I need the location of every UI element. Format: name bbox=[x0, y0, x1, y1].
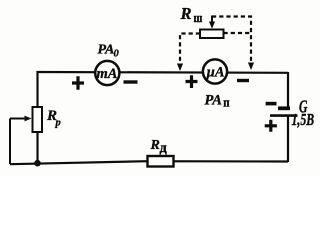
minus sign (uA right) bbox=[237, 79, 249, 82]
svg-text:PA: PA bbox=[205, 92, 223, 108]
wire dashed shunt left bbox=[180, 34, 200, 65]
ammeter PA0 (mA) bbox=[95, 61, 119, 85]
label Rp bbox=[46, 108, 61, 129]
battery G positive plate (long) bbox=[270, 114, 298, 117]
wire right vertical lower bbox=[287, 116, 289, 162]
resistor Rsh (shunt) bbox=[200, 30, 224, 39]
arrow dashed-left tip bbox=[177, 64, 183, 72]
wire dashed shunt tap top bbox=[212, 17, 251, 63]
rheostat wiper arrowhead bbox=[25, 116, 32, 122]
microammeter PAp (uA) bbox=[203, 59, 227, 83]
plus sign (uA left) bbox=[186, 75, 198, 88]
svg-text:1,5В: 1,5В bbox=[292, 111, 315, 130]
label PAp bbox=[205, 92, 230, 110]
svg-text:R: R bbox=[180, 4, 192, 23]
resistor Rd bbox=[148, 156, 174, 167]
svg-text:п: п bbox=[223, 95, 229, 110]
arrow dashed-right tip bbox=[248, 63, 254, 71]
node junction dot bbox=[34, 160, 41, 167]
label Rd bbox=[150, 138, 168, 156]
svg-text:0: 0 bbox=[114, 49, 120, 60]
svg-text:р: р bbox=[55, 118, 61, 129]
minus sign (battery) bbox=[266, 102, 277, 106]
wire rheostat wiper arm bbox=[10, 119, 25, 165]
svg-text:mA: mA bbox=[97, 66, 118, 82]
wire shunt slider stem bbox=[211, 16, 213, 23]
wire left vertical lower bbox=[36, 131, 38, 164]
svg-text:R: R bbox=[150, 138, 160, 153]
plus sign (mA left) bbox=[72, 76, 84, 90]
wire dashed shunt right bbox=[224, 32, 252, 34]
svg-text:д: д bbox=[160, 140, 168, 156]
svg-text:PA: PA bbox=[98, 43, 115, 58]
minus sign (mA right) bbox=[124, 80, 138, 83]
wire left vertical upper bbox=[36, 71, 38, 108]
label PA0 bbox=[98, 43, 120, 60]
label G bbox=[299, 97, 307, 117]
label Rsh bbox=[180, 4, 203, 25]
svg-text:µA: µA bbox=[205, 65, 224, 81]
wire bottom horizontal bbox=[10, 161, 288, 164]
resistor Rp (rheostat body) bbox=[33, 107, 43, 132]
svg-text:ш: ш bbox=[194, 11, 203, 25]
plus sign (battery) bbox=[265, 120, 277, 132]
wire top horizontal bbox=[37, 71, 288, 74]
shunt slider arrowhead bbox=[209, 22, 215, 29]
label 1,5V bbox=[292, 111, 315, 130]
wire right vertical upper bbox=[287, 72, 289, 108]
battery G negative plate (short thick) bbox=[278, 106, 290, 110]
